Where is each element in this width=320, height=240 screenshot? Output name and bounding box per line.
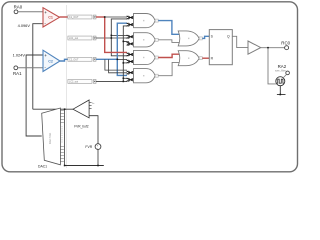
wire RA0 to C1+ (18, 11, 43, 13)
wire ground rail (65, 165, 104, 167)
svg-text:4.096V: 4.096V (18, 23, 31, 28)
junction d4-g3r4 (123, 62, 125, 64)
input selector gate4 pair B (127, 78, 134, 82)
svg-text:LC2_out: LC2_out (69, 80, 78, 83)
junction d1 source (104, 16, 106, 18)
wire 4.096V to C1- (33, 24, 43, 110)
junction ladder top (64, 108, 66, 110)
svg-text:C1_OUT: C1_OUT (69, 16, 79, 19)
junction d2-g2r1 (111, 35, 113, 37)
wire C2 out (60, 59, 68, 61)
wire dac ladder top (64, 109, 66, 165)
comparator C1 (43, 8, 60, 27)
svg-text:+: + (44, 53, 47, 58)
gate G2 output box (155, 38, 158, 41)
wire FVR to buf2 (89, 116, 98, 144)
junction d3 source (117, 59, 119, 61)
wire G4 out (158, 62, 179, 75)
or-gate OR-A (178, 31, 199, 46)
input selector gate2 pair A (127, 35, 134, 39)
junction d4-g4r3 (123, 78, 125, 80)
junction rail FVR (97, 165, 99, 167)
wire bus d4 (96, 26, 128, 82)
border frame (2, 2, 298, 172)
input selector gate4 pair A (127, 71, 134, 75)
svg-text:FVR: FVR (85, 145, 92, 149)
wire fanout v2 to gate4 row2 (109, 59, 127, 72)
wire bus d2 (96, 19, 127, 56)
buffer FVR_buf2 (73, 100, 95, 118)
input selector gate3 pair B (127, 60, 134, 64)
wire bus d1 red (96, 17, 127, 52)
or-gate OR-B output box (199, 57, 202, 60)
mux box d2 LC1out (68, 36, 96, 40)
svg-text:RA0: RA0 (14, 4, 23, 9)
wire scope to ground (279, 86, 281, 95)
junction output node (267, 47, 269, 49)
svg-text:RC0: RC0 (281, 41, 290, 46)
wire OR-B to latch R red (202, 57, 209, 59)
svg-text:1.024V: 1.024V (13, 53, 26, 58)
wire G3 out red (158, 54, 179, 57)
junction rail left (64, 165, 66, 167)
wire RA2 pin to scope (284, 74, 287, 77)
svg-text:DAC1: DAC1 (38, 164, 47, 168)
svg-text:swe_filter: swe_filter (275, 68, 286, 72)
wire buffer to RC0 (261, 47, 285, 49)
wire G1 out blue (158, 21, 179, 35)
svg-text:+: + (44, 10, 47, 15)
gate G4 output box (155, 74, 158, 77)
gate G1 (134, 14, 156, 28)
source FVR (95, 144, 101, 151)
junction d4 source (123, 81, 125, 83)
or-gate OR-A output box (199, 37, 202, 40)
scope probe icon (276, 77, 285, 86)
ground (277, 94, 286, 96)
wire FVRbuf2 out to 4.096V (33, 108, 73, 110)
gate G3 (134, 50, 156, 64)
mux box d4 LC2out (68, 79, 96, 83)
junction d4-g2r3 (123, 41, 125, 43)
gate G4 (134, 69, 156, 83)
gate G3 output box (155, 56, 158, 59)
svg-text:Q: Q (227, 35, 230, 39)
wire fanout v1 to gate4 row1 (105, 59, 127, 70)
svg-text:LC1_out: LC1_out (69, 37, 78, 40)
wire RA1 to C2- (18, 67, 43, 69)
pin RA0 (14, 10, 18, 14)
input selector gate2 pair B (127, 42, 134, 46)
svg-text:C2: C2 (48, 59, 53, 63)
mux box d1 C1OUT (68, 15, 96, 19)
svg-text:DAC 5 bit: DAC 5 bit (48, 133, 52, 144)
pin RA1 (14, 66, 18, 70)
or-gate OR-B (178, 51, 199, 66)
buffer A1 (248, 41, 261, 54)
wire latch Q to buffer (232, 36, 248, 47)
gate G1 output box (155, 19, 158, 22)
sr-latch U1 (209, 30, 232, 65)
svg-text:FVR_buf2: FVR_buf2 (74, 124, 89, 128)
wire G2 out (158, 40, 179, 43)
input selector gate3 pair A (127, 53, 134, 57)
comparator C2 (43, 50, 60, 71)
input selector gate1 pair B (127, 23, 134, 27)
svg-text:C1: C1 (48, 16, 53, 20)
input selector gate1 pair A (127, 16, 134, 20)
junction d2 source (111, 37, 113, 39)
pin RC0 (285, 46, 289, 50)
svg-text:RA1: RA1 (13, 71, 22, 76)
wire 1.024V to C2+ (26, 55, 43, 136)
svg-text:C2_OUT: C2_OUT (69, 58, 79, 61)
wire C1 out (60, 16, 68, 18)
column separator line (66, 5, 68, 168)
dac DAC1 (42, 108, 61, 165)
wire OR-A to latch S blue (202, 36, 209, 38)
dac ladder taps (60, 111, 64, 162)
wire to RA2 scope (268, 49, 276, 84)
pin RA2 (286, 71, 290, 75)
wire bus d3 blue (96, 23, 127, 75)
gate G2 (134, 33, 156, 47)
mux box d3 C2OUT (68, 57, 96, 61)
wire FVR to rail (97, 150, 99, 166)
